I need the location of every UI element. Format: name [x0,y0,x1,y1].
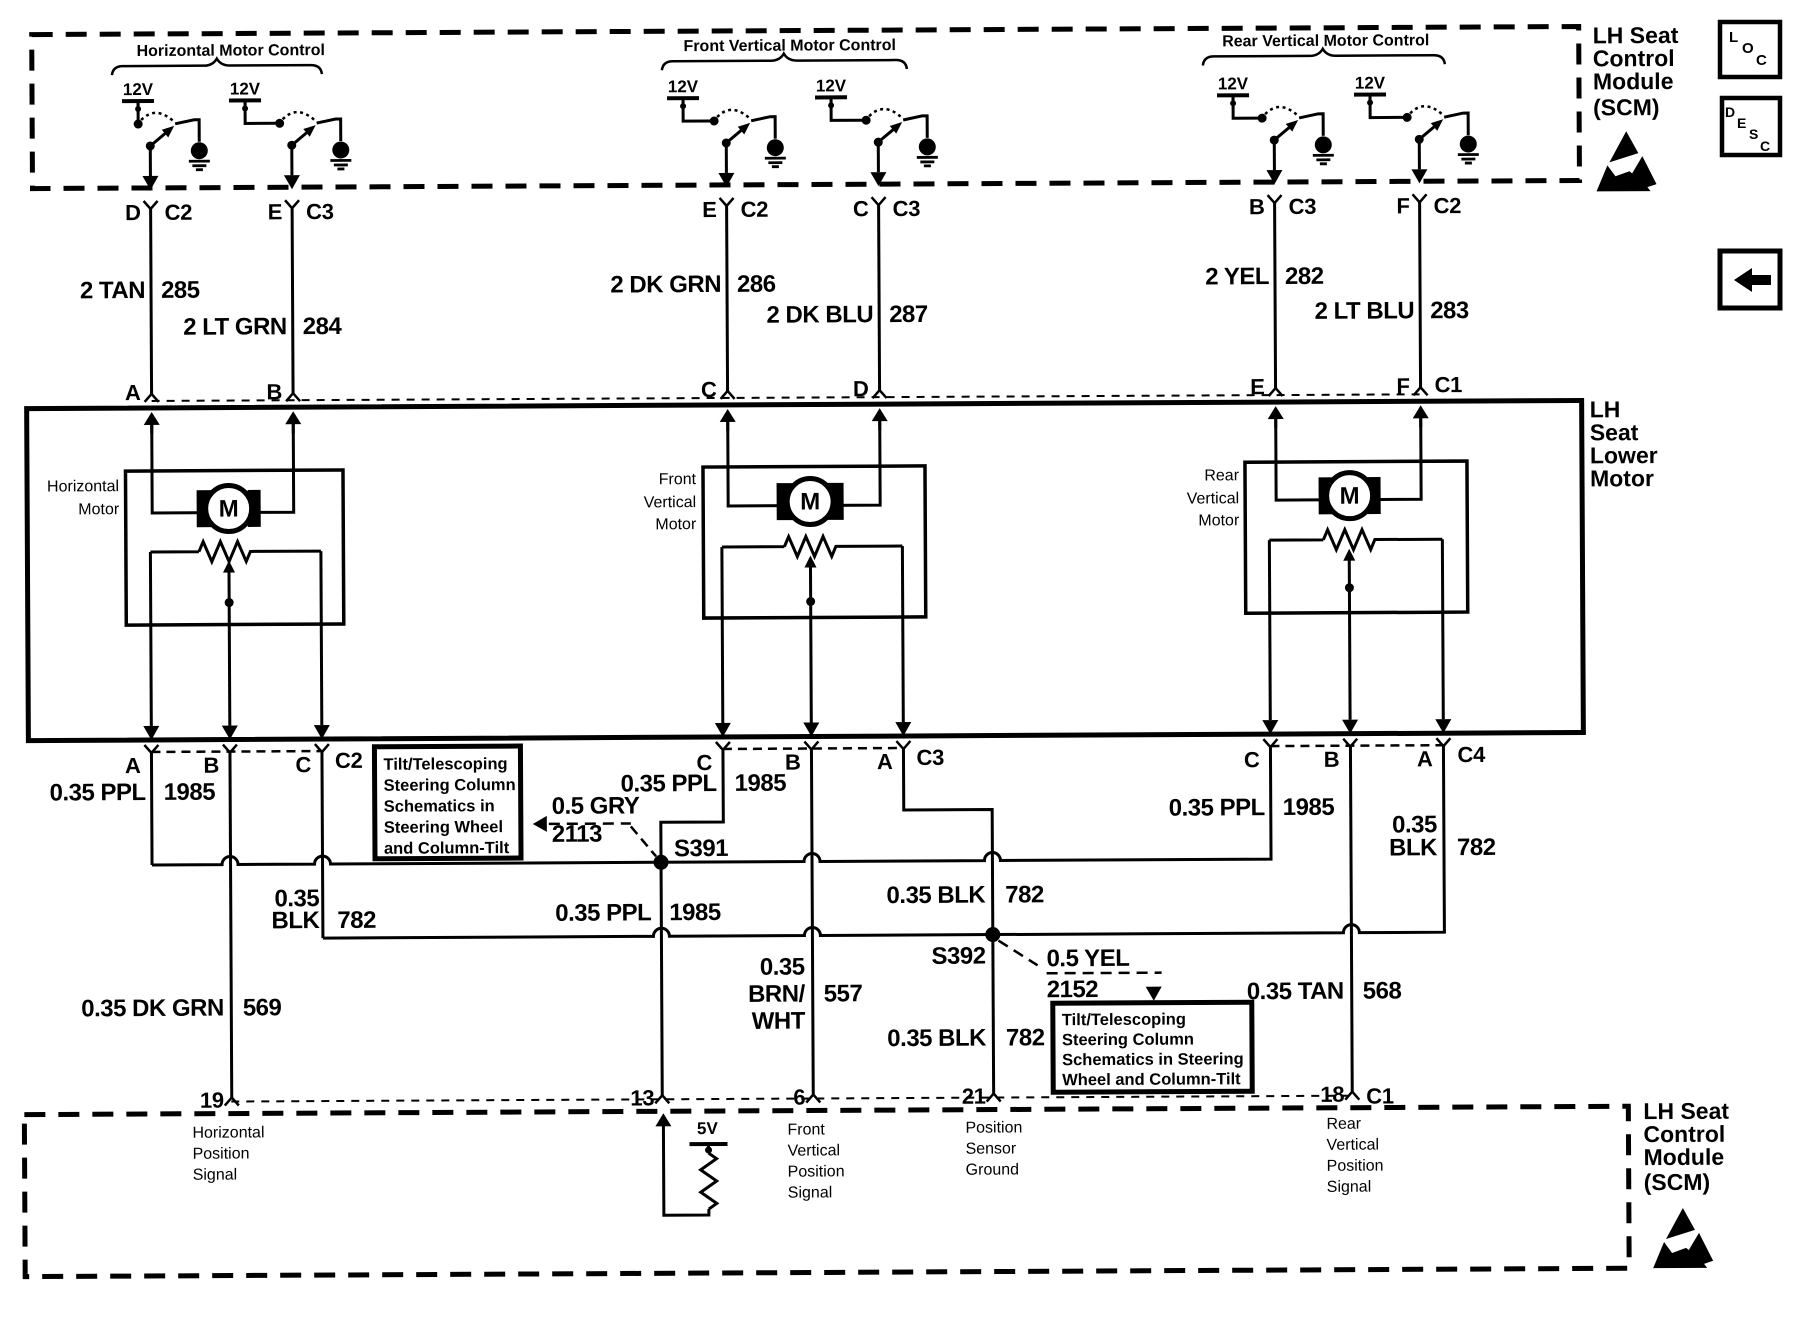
switch SW4 12V supply [815,76,847,108]
switch SW6 contacts and wiper [1403,106,1444,144]
svg-text:12V: 12V [668,77,699,96]
svg-text:Motor: Motor [1198,512,1240,529]
svg-text:D: D [853,376,869,401]
svg-text:D: D [125,200,141,225]
svg-text:C3: C3 [916,745,944,770]
pin E connector C2 (SCM) [702,197,768,222]
switch SW4 ground lead [903,116,927,138]
svg-text:782: 782 [1006,1024,1045,1051]
svg-text:2152: 2152 [1047,976,1099,1003]
rear vertical motor label [1187,467,1240,529]
switch SW2 contacts and wiper [275,112,316,150]
svg-text:Module: Module [1593,68,1674,94]
svg-text:Steering Wheel: Steering Wheel [384,818,503,837]
svg-text:C2: C2 [165,200,193,225]
svg-text:6: 6 [793,1085,805,1110]
svg-text:12V: 12V [816,76,847,95]
horizontal motor armature wire left [152,418,212,513]
svg-text:C2: C2 [335,748,363,773]
svg-text:1985: 1985 [735,770,787,797]
wire 0.35 PPL 1985 from pin A C2 [49,753,215,866]
wire pin E into motor box (arrow) [1268,406,1284,428]
wire SW4 pivot to pin C [870,142,886,186]
switch SW1 ground [189,142,210,170]
svg-text:E: E [1737,115,1746,131]
svg-text:568: 568 [1363,977,1402,1004]
svg-text:13: 13 [630,1085,654,1110]
switch SW2 ground lead [317,119,341,141]
switch SW6 feed wire [1370,96,1403,117]
wire 2 YEL 282 [1205,203,1324,389]
svg-text:287: 287 [889,301,928,328]
switch SW3 feed wire [683,100,710,121]
pin D connector C2 (SCM) [125,200,192,225]
rear vertical motor pot right lead wire [1434,539,1451,733]
switch SW5 ground [1313,136,1334,164]
svg-text:0.35: 0.35 [760,954,805,981]
wire 0.35 PPL 1985 from pin C C3 to S391 [620,750,786,856]
svg-text:C: C [701,377,717,402]
label 0.35 PPL 1985 (right vertical) [1169,794,1335,822]
svg-text:M: M [1340,483,1360,510]
svg-text:B: B [1249,194,1265,219]
LH Seat Lower Motor box [27,400,1584,740]
front vertical motor pot right lead wire [894,546,911,736]
front vertical motor pot wiper wire [802,555,819,736]
svg-text:BRN/: BRN/ [748,981,806,1008]
label: LH Seat Control Module (SCM) bottom right [1643,1098,1729,1195]
brace: front vertical motor control [662,53,907,70]
pin B connector C2 [203,745,237,778]
wire SW2 pivot to pin E [284,145,300,189]
label 0.35 BLK 782 (right vertical) [1389,811,1496,862]
svg-text:A: A [877,749,893,774]
svg-text:12V: 12V [1355,73,1386,92]
svg-text:0.35 DK GRN: 0.35 DK GRN [81,995,224,1023]
note box: Tilt/Telescoping Steering Column Schematics (right) [1053,1002,1252,1092]
svg-text:557: 557 [824,980,863,1007]
svg-text:E: E [1250,374,1265,399]
wire 2 LT BLU 283 [1314,202,1469,388]
svg-text:0.35 BLK: 0.35 BLK [887,1025,987,1053]
svg-text:2 YEL: 2 YEL [1205,263,1269,290]
wire pin A into motor box (arrow) [144,412,160,434]
wire 0.35 BRN/WHT 557 pin B C3 to pin 6 [747,749,863,1095]
switch SW4 contacts and wiper [862,109,903,147]
splice S392 [931,927,1000,970]
pin 13 bottom SCM connector [630,1085,669,1110]
svg-text:M: M [800,488,820,515]
LH Seat Control Module (SCM) bottom dashed box [24,1106,1629,1276]
horizontal motor motor M symbol [197,485,260,531]
svg-text:2113: 2113 [552,821,602,848]
horizontal motor inner box [125,470,343,625]
svg-text:Front: Front [659,471,697,488]
svg-text:782: 782 [1457,834,1496,861]
front vertical motor inner box [703,466,926,618]
horizontal motor position sensor potentiometer [150,541,321,562]
svg-text:285: 285 [161,277,200,304]
pin E connector C3 (SCM) [268,199,334,224]
rear vertical motor armature wire left [1276,412,1334,500]
svg-text:1985: 1985 [1283,794,1335,821]
svg-text:12V: 12V [230,79,261,98]
svg-text:A: A [125,380,141,405]
svg-text:Ground: Ground [966,1161,1019,1178]
wire SW6 pivot to pin F [1411,139,1427,183]
svg-text:Steering Column: Steering Column [384,776,516,795]
front vertical motor label [644,471,697,533]
svg-text:2 LT BLU: 2 LT BLU [1315,297,1415,325]
callout 0.5 YEL 2152 [998,940,1161,1004]
wire 2 LT GRN 284 [183,208,343,394]
svg-text:Position: Position [788,1163,845,1180]
svg-text:Front Vertical Motor Control: Front Vertical Motor Control [683,37,896,55]
pin D connector C1 [853,376,887,401]
horizontal motor pot left lead wire [142,552,159,740]
rear vertical motor position sensor potentiometer [1269,529,1442,550]
wire pin B into motor box (arrow) [285,411,301,433]
svg-text:Tilt/Telescoping: Tilt/Telescoping [383,755,507,774]
svg-text:0.5 GRY: 0.5 GRY [552,792,640,819]
pin A connector C1 [125,380,159,405]
switch SW1 contacts and wiper [134,113,175,151]
horizontal motor label [47,478,120,518]
pin 18 bottom SCM connector [1320,1082,1359,1107]
wire 0.35 DK GRN 569 pin B C2 to pin 19 [80,752,282,1098]
svg-text:and Column-Tilt: and Column-Tilt [384,839,510,858]
switch SW5 feed wire [1233,97,1258,118]
svg-text:Motor: Motor [1590,465,1654,491]
pin A connector C3 [877,741,911,774]
switch SW2 feed wire [245,102,276,123]
svg-text:C2: C2 [1434,193,1462,218]
label: LH Seat Lower Motor [1590,396,1658,491]
label: Front Vertical Position Signal [787,1121,844,1201]
svg-text:2 DK BLU: 2 DK BLU [766,301,873,329]
LOC button [1720,22,1780,77]
svg-text:Horizontal Motor Control: Horizontal Motor Control [137,42,326,60]
svg-text:BLK: BLK [1389,834,1438,861]
wire pin D into motor box (arrow) [872,408,888,430]
switch SW1 12V supply [122,80,154,112]
svg-text:286: 286 [737,271,776,298]
svg-text:284: 284 [303,313,343,340]
wire SW1 pivot to pin D [142,146,158,190]
svg-text:O: O [1742,40,1754,57]
wire 0.35 BLK 782 from pin C C2 [271,752,376,939]
pin C connector C3 (SCM) [853,196,920,221]
rear vertical motor pot wiper wire [1341,549,1358,734]
svg-text:C: C [1760,138,1770,154]
switch SW1 ground lead [175,120,199,142]
rear vertical motor armature wire right [1365,411,1421,499]
switch SW2 ground [330,141,351,169]
svg-text:S: S [1749,126,1758,142]
svg-text:L: L [1729,29,1738,46]
wire 0.35 TAN 568 pin B C4 to pin 18 [1246,746,1402,1092]
wire S392 to pin 21 [887,941,1045,1094]
svg-text:1985: 1985 [669,899,721,926]
svg-text:C: C [853,196,869,221]
svg-text:C3: C3 [306,199,334,224]
svg-text:C4: C4 [1457,742,1486,767]
pin B connector C4 [1324,739,1358,772]
wire 2 DK GRN 286 [610,206,776,392]
svg-text:Sensor: Sensor [965,1140,1016,1157]
svg-text:E: E [702,197,717,222]
pin 19 bottom SCM connector [200,1088,239,1113]
pin B connector C3 (SCM) [1249,194,1316,219]
svg-text:782: 782 [1005,881,1044,908]
svg-text:F: F [1396,373,1409,398]
wire PPL 1985 bus to S391 and pin C C4 [151,747,1271,865]
svg-text:C3: C3 [1289,194,1317,219]
pin E connector C1 [1250,374,1283,399]
wire SW3 pivot to pin E [718,143,734,187]
front vertical motor armature wire right [828,414,880,505]
svg-text:Signal: Signal [193,1167,238,1184]
svg-text:0.35 PPL: 0.35 PPL [555,899,651,927]
wire pin C into motor box (arrow) [720,409,736,431]
pin B connector C3 [785,741,819,774]
LH Seat Control Module (SCM) top dashed box [32,26,1580,188]
svg-text:Signal: Signal [1327,1179,1372,1196]
pin F connector C2 (SCM) [1396,193,1461,218]
svg-text:Vertical: Vertical [1187,490,1240,507]
switch SW3 ground [765,139,786,167]
switch SW6 ground [1458,136,1479,164]
svg-text:Schematics in Steering: Schematics in Steering [1062,1050,1244,1069]
switch SW5 12V supply [1217,74,1249,106]
svg-text:Module: Module [1644,1144,1725,1170]
rear vertical motor pot left lead wire [1261,540,1278,734]
svg-text:12V: 12V [1218,74,1249,93]
svg-text:0.35 TAN: 0.35 TAN [1247,978,1344,1006]
svg-text:0.5 YEL: 0.5 YEL [1046,945,1129,972]
svg-text:21: 21 [962,1084,986,1109]
svg-text:Vertical: Vertical [644,494,697,511]
svg-text:0.35 PPL: 0.35 PPL [50,779,146,807]
switch SW3 12V supply [667,77,699,109]
svg-text:D: D [1725,104,1735,120]
connector C2 dashed line [151,750,321,753]
rear vertical motor inner box [1245,461,1468,613]
svg-text:Signal: Signal [788,1184,833,1201]
DESC button [1722,98,1780,155]
wire pin F into motor box (arrow) [1413,405,1429,427]
svg-text:A: A [1417,746,1433,771]
pin F connector C1 [1396,373,1427,398]
switch SW6 ground lead [1444,113,1468,135]
front vertical motor pot left lead wire [714,547,731,737]
svg-text:Front: Front [787,1121,825,1138]
pin C connector C2 [295,744,329,777]
horizontal motor armature wire right [248,417,294,512]
wire 2 TAN 285 [80,209,201,395]
brace: horizontal motor control [112,58,322,75]
svg-text:0.35 PPL: 0.35 PPL [1169,794,1265,822]
svg-text:C: C [1244,747,1260,772]
svg-text:282: 282 [1285,263,1324,290]
5V supply and pull-up resistor [655,1113,728,1215]
note box: Tilt/Telescoping Steering Column Schematics (left) [374,746,521,859]
pin 21 bottom SCM connector [962,1084,1001,1109]
pin B connector C1 [266,379,300,404]
switch SW3 contacts and wiper [710,110,751,148]
svg-text:283: 283 [1430,297,1469,324]
wire 2 DK BLU 287 [766,205,928,391]
wire 0.35 BLK 782 from pin A C3 to S392 [886,748,1044,935]
label: Horizontal Position Signal [192,1124,264,1183]
connector C4 dashed line [1270,744,1443,747]
switch SW3 ground lead [751,117,775,139]
pin A connector C2 [125,745,159,778]
front vertical motor position sensor potentiometer [722,536,903,557]
svg-text:569: 569 [243,994,282,1021]
svg-text:Position: Position [1327,1158,1384,1175]
svg-text:Vertical: Vertical [1326,1137,1379,1154]
ESD symbol bottom [1653,1208,1713,1268]
svg-text:C: C [1756,52,1767,69]
svg-text:2 TAN: 2 TAN [80,277,145,304]
callout 0.5 GRY 2113 [533,792,656,857]
front vertical motor armature wire left [728,415,792,506]
svg-text:B: B [203,753,219,778]
connector C3 dashed line [723,747,903,750]
svg-text:Vertical: Vertical [788,1142,841,1159]
rear vertical motor motor M symbol [1319,473,1380,519]
svg-text:S392: S392 [931,943,985,970]
svg-text:0.35 BLK: 0.35 BLK [886,882,986,910]
svg-text:(SCM): (SCM) [1593,94,1660,120]
switch SW5 contacts and wiper [1258,107,1299,145]
connector C1 dashed line [152,394,1421,401]
svg-text:Motor: Motor [78,501,120,518]
switch SW5 ground lead [1299,114,1323,136]
pin C connector C4 [1244,739,1278,772]
switch SW2 12V supply [229,79,261,111]
svg-text:Horizontal: Horizontal [47,478,119,495]
svg-text:B: B [266,379,282,404]
switch SW4 feed wire [831,99,862,120]
pin 6 bottom SCM connector [793,1084,820,1109]
svg-text:C2: C2 [741,197,769,222]
svg-text:E: E [268,199,283,224]
svg-text:782: 782 [337,907,376,934]
svg-text:B: B [785,750,801,775]
horizontal motor pot right lead wire [313,551,330,739]
svg-text:19: 19 [200,1088,224,1113]
svg-text:C1: C1 [1366,1083,1394,1108]
svg-text:WHT: WHT [752,1008,806,1035]
svg-text:Position: Position [193,1145,250,1162]
svg-text:Steering Column: Steering Column [1062,1031,1194,1050]
svg-text:A: A [125,753,141,778]
svg-text:C1: C1 [1434,372,1462,397]
svg-text:Motor: Motor [655,516,697,533]
svg-text:Position: Position [965,1119,1022,1136]
pin C connector C3 [696,742,730,775]
back arrow button [1720,251,1780,308]
brace: rear vertical motor control [1203,48,1445,65]
wire BLK 782 bus through S392 to pin A C4 [322,746,1444,938]
wire SW5 pivot to pin B [1266,140,1282,184]
svg-text:Wheel and Column-Tilt: Wheel and Column-Tilt [1062,1070,1241,1089]
svg-text:Rear: Rear [1326,1116,1361,1133]
switch SW1 feed wire [137,103,140,120]
svg-text:(SCM): (SCM) [1644,1169,1711,1195]
svg-text:Horizontal: Horizontal [192,1124,264,1141]
svg-text:C3: C3 [893,196,921,221]
svg-text:Schematics in: Schematics in [384,797,495,816]
svg-text:Rear: Rear [1204,467,1239,484]
svg-text:18: 18 [1320,1082,1344,1107]
svg-text:BLK: BLK [271,907,320,934]
svg-text:1985: 1985 [164,779,216,806]
svg-text:C: C [295,752,311,777]
svg-text:Rear Vertical Motor Control: Rear Vertical Motor Control [1222,32,1429,50]
svg-text:S391: S391 [674,835,728,862]
bottom SCM connector dashed line [231,1096,1352,1102]
svg-text:Tilt/Telescoping: Tilt/Telescoping [1062,1011,1186,1030]
pin C connector C1 [701,377,735,402]
svg-text:M: M [219,496,239,523]
label: Rear Vertical Position Signal [1326,1116,1383,1196]
svg-text:2 LT GRN: 2 LT GRN [183,313,287,341]
label: LH Seat Control Module (SCM) top right [1593,22,1679,120]
svg-text:F: F [1396,193,1409,218]
svg-text:5V: 5V [697,1119,719,1138]
pin A connector C4 [1417,738,1451,771]
ESD symbol top [1596,131,1656,191]
svg-text:12V: 12V [123,80,154,99]
front vertical motor motor M symbol [777,478,843,524]
horizontal motor pot wiper wire [221,561,238,740]
splice S391 [653,835,728,870]
switch SW6 12V supply [1354,73,1386,105]
svg-text:B: B [1324,747,1340,772]
label: Position Sensor Ground [965,1119,1022,1178]
svg-text:2 DK GRN: 2 DK GRN [610,271,721,299]
wire S391 to pin 13 [555,869,722,1096]
switch SW4 ground [917,138,938,166]
